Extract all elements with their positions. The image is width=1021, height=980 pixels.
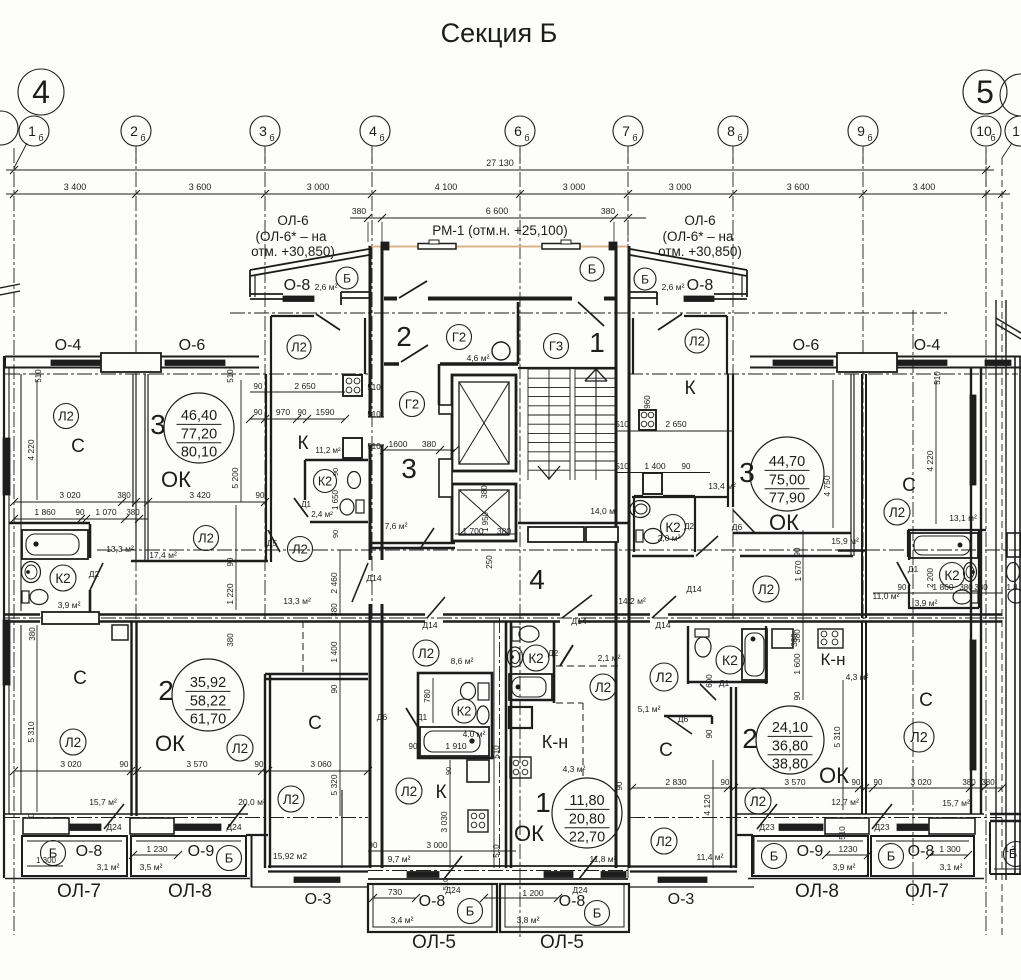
svg-text:ОЛ-8: ОЛ-8 [795,881,839,902]
dim 510 vertical x494 [493,621,495,868]
К2 box right of stairs [633,496,635,552]
bathroom box left apartment [418,673,492,758]
wall С/3 left wing [132,374,134,507]
washbasin left wing [22,562,41,583]
axis circle 2б [121,116,151,146]
svg-text:Л2: Л2 [65,735,81,750]
О-3 facade step right [737,834,753,836]
svg-text:510: 510 [492,745,501,759]
room 2 rw area circle [756,706,824,774]
stair down arrow [538,466,549,479]
right neighbour wall line [995,300,997,880]
svg-text:К2: К2 [55,571,70,586]
horizontal axis wing bottom right [630,817,1002,819]
svg-text:5 200: 5 200 [230,467,240,489]
circle Л2 hall right [288,537,313,562]
svg-text:б: б [524,133,529,143]
svg-text:22,70: 22,70 [569,830,605,846]
svg-text:б: б [737,133,742,143]
svg-text:Д14: Д14 [366,573,381,583]
window О-4 right [897,360,947,366]
svg-text:Д14: Д14 [686,584,701,594]
corridor wall piece right [838,549,866,552]
svg-text:3 000: 3 000 [669,182,692,192]
left bay door leaf [316,314,340,330]
room3 right bottom wall [733,532,851,534]
svg-text:С: С [71,436,85,457]
dim 1230 rw [826,854,868,856]
right wing top wall [750,356,1021,358]
svg-text:3,1 м²: 3,1 м² [940,862,963,872]
dim 4750 vertical [832,380,834,528]
svg-text:510: 510 [226,369,235,383]
window О-4 left [51,360,101,366]
svg-text:Д23: Д23 [874,822,889,832]
window О-6 right [773,360,833,366]
svg-text:24,10: 24,10 [772,720,808,736]
svg-text:К: К [684,378,695,399]
terrace window bar 2 [542,244,580,250]
bathroom right wing box [907,530,909,557]
circle Л2 rw lower-left room [651,828,677,854]
pier box wb1 [23,818,69,834]
svg-text:Г2: Г2 [452,330,466,345]
svg-text:К-н: К-н [821,650,846,669]
svg-text:4,3 м²: 4,3 м² [563,764,586,774]
svg-text:Г3: Г3 [549,339,563,354]
right wing window bar outer [970,395,976,485]
svg-text:3 060: 3 060 [310,759,332,769]
svg-text:4,6 м²: 4,6 м² [467,353,490,363]
svg-text:Д24: Д24 [106,822,121,832]
svg-text:Б: Б [887,849,896,864]
right wing bottom wall [736,813,984,815]
circle Л2 rw hall [650,663,678,691]
svg-text:2: 2 [158,675,174,706]
door leaf К2 box [294,498,308,517]
K2 box left wing [305,459,368,461]
svg-text:90: 90 [721,778,730,787]
central bottom window 1 [407,872,439,878]
wall top of С right lower [265,673,368,675]
svg-text:13,3 м²: 13,3 м² [106,544,134,554]
balcony О-9 right wing box [752,836,868,876]
svg-text:3 600: 3 600 [189,182,212,192]
circle Л2 left apt room [413,640,439,666]
circle К2 left apt [452,699,476,723]
balcony door leaf rw1 [757,804,777,829]
circle Г2 lower [400,392,425,417]
svg-text:Л2: Л2 [401,784,417,799]
svg-text:6: 6 [514,123,522,139]
corridor door leaf 1 [427,597,445,618]
tub rw vertical [742,629,767,680]
horizontal axis line left wing [5,373,368,375]
door leaf room 2 [401,345,428,362]
central block left wall [369,246,372,417]
axis circle 3б [250,116,280,146]
svg-text:8: 8 [727,123,735,139]
dim 1400/90 vertical x337 [339,621,341,816]
svg-text:250: 250 [485,555,494,569]
washer left apt [467,760,489,782]
svg-text:11,0 м²: 11,0 м² [873,591,900,601]
svg-text:44,70: 44,70 [769,454,805,470]
door leaf left apt [406,708,419,729]
svg-text:3 020: 3 020 [60,759,82,769]
svg-text:9: 9 [857,123,865,139]
balcony О-8 left wing box [22,836,127,876]
stair enclosure top [518,367,616,369]
svg-text:7,6 м²: 7,6 м² [385,521,408,531]
svg-text:ОК: ОК [155,731,185,756]
circle Л2 С right [884,499,910,525]
svg-text:1: 1 [535,787,551,818]
corridor door leaf 3 [652,596,676,618]
svg-text:90: 90 [298,408,307,417]
kitchen left walls [270,377,272,497]
svg-text:9,7 м²: 9,7 м² [388,854,411,864]
svg-text:Л2: Л2 [656,669,673,685]
svg-text:3,8 м²: 3,8 м² [517,915,540,925]
room 1 area circle [552,778,622,848]
dim 2650 kitchen left [250,391,345,393]
svg-text:5 310: 5 310 [832,726,842,748]
dim 3030 vertical [449,760,451,868]
svg-text:1: 1 [1012,123,1020,139]
extra axis line right [912,310,914,905]
svg-text:Л2: Л2 [889,505,905,520]
terrace door leaf right [578,302,604,326]
circle К2 rw [716,646,744,674]
svg-text:О-3: О-3 [668,891,695,908]
svg-text:4 750: 4 750 [822,475,832,497]
circle Л2 room2 [227,735,253,761]
svg-text:РМ-1 (отм.н. +25,100): РМ-1 (отм.н. +25,100) [432,223,567,238]
window С rw [897,824,928,831]
svg-text:1 950: 1 950 [481,511,490,532]
horizontal axis line Б [230,312,947,314]
svg-text:О-8: О-8 [76,843,103,860]
axis circle 8б [718,116,748,146]
dim line 1600/380 [384,449,455,451]
svg-text:ОЛ-8: ОЛ-8 [168,881,212,902]
svg-text:К2: К2 [528,651,543,666]
hallway wall rw [664,715,712,717]
tub left apt [420,727,489,756]
svg-text:ОЛ-7: ОЛ-7 [905,881,949,902]
balcony outer line [5,878,250,880]
svg-text:1 3: 1 3 [1004,845,1016,854]
wall room3 center [438,364,441,405]
sink left apt [477,706,489,724]
svg-text:90: 90 [254,408,263,417]
axis circle 4б [360,116,390,146]
svg-text:3 600: 3 600 [787,182,810,192]
svg-text:О-8: О-8 [908,843,935,860]
svg-text:3: 3 [401,453,417,484]
svg-text:О-6: О-6 [793,337,820,354]
svg-text:1 600: 1 600 [792,653,802,675]
svg-text:35,92: 35,92 [190,675,226,691]
svg-text:510: 510 [615,420,629,429]
svg-text:Д14: Д14 [655,620,670,630]
vent shaft box left [112,625,128,640]
right neighbour wall 2 [1014,356,1016,875]
svg-text:2 830: 2 830 [665,777,687,787]
axis leaders [14,143,27,168]
dim 1300 w1 [27,865,63,867]
stair treads left flight [528,368,570,370]
washer left kitchen [343,438,362,458]
svg-text:90: 90 [256,491,265,500]
stove rw [818,629,843,648]
dim row right wing bottom [632,787,1002,789]
stair flight borders [527,369,529,480]
wall between central apartments [505,621,508,868]
section marker partial left [0,111,18,145]
svg-text:90: 90 [255,760,264,769]
svg-text:4: 4 [369,123,377,139]
elevator pier 2 [439,459,452,497]
window О-3 right [658,877,707,883]
svg-text:Д24: Д24 [572,885,587,895]
sink right wing bath [964,563,977,582]
balcony О-9 left wing box [131,836,246,876]
svg-text:960: 960 [643,395,652,409]
svg-text:380: 380 [422,439,436,449]
svg-text:1 300: 1 300 [939,844,961,854]
svg-text:К2: К2 [457,704,472,719]
svg-text:Л2: Л2 [291,340,307,355]
svg-text:75,00: 75,00 [769,472,805,488]
elevator pier 1 [439,405,452,414]
svg-text:Б: Б [343,271,351,285]
door leaf corridor right [696,536,718,556]
axis circle 6б [505,116,535,146]
svg-text:3 000: 3 000 [426,840,448,850]
svg-text:К: К [435,782,446,803]
balcony door leaf w1 [104,804,124,829]
balcony ОЛ-5 left box [368,884,497,932]
svg-text:1: 1 [589,327,605,358]
circle Л2 room С [54,404,79,429]
secondary dim 380/6600/380 [350,217,646,219]
bathroom right wall left wing [89,524,92,558]
svg-text:1 860: 1 860 [932,582,954,592]
svg-text:4 100: 4 100 [435,182,458,192]
axis 1в line [1001,158,1003,935]
circle Г2 upper [447,325,472,350]
right bay room walls [726,316,728,374]
stair up arrow [595,369,597,435]
svg-text:11,4 м²: 11,4 м² [697,852,724,862]
section marker 4 [18,69,64,115]
dim 1230 w2 [133,854,178,856]
svg-text:510: 510 [838,826,847,840]
pier box wb4 [929,818,975,834]
svg-text:730: 730 [388,887,402,897]
right neighbour fixtures [1008,589,1021,603]
svg-text:46,40: 46,40 [181,408,217,424]
axis dimension line [6,193,1010,195]
svg-text:780: 780 [423,689,432,703]
balcony door leaf 1 [444,856,462,879]
stove right apt [510,757,531,778]
wall under room 2 [384,362,399,366]
svg-text:2 650: 2 650 [294,381,316,391]
svg-text:6 600: 6 600 [486,206,509,216]
circle К2 kitchen box [314,470,337,493]
dim row left y501 [14,501,265,503]
svg-text:5 320: 5 320 [329,774,339,796]
lobby niche 2 [586,527,618,542]
corridor top wall right wing [632,555,694,557]
svg-text:90: 90 [330,684,339,693]
horizontal axis line right wing [628,373,1018,375]
svg-text:90: 90 [331,530,340,538]
left bay wall segment [341,291,369,293]
corridor bottom wall main [99,613,425,615]
wall С apt rw left lower [861,621,863,814]
svg-text:Л2: Л2 [232,741,248,756]
svg-text:38,80: 38,80 [772,757,808,773]
dim row 1860/380 right [873,592,1002,594]
svg-text:Б: Б [770,849,779,864]
svg-text:1 400: 1 400 [329,641,339,663]
svg-text:13,3 м²: 13,3 м² [283,596,311,606]
svg-text:ОЛ-7: ОЛ-7 [57,881,101,902]
svg-text:20,0 м²: 20,0 м² [238,797,266,807]
door leaf Д2 right apt [560,645,573,666]
svg-text:2: 2 [130,123,138,139]
balcony outer line right [748,878,984,880]
svg-text:Б: Б [593,906,602,921]
О-3 facade step left [246,834,268,836]
svg-text:77,90: 77,90 [769,491,805,507]
dim 5310 rw vertical [842,680,844,810]
overall dimension line 27130 [6,169,994,171]
svg-text:Л2: Л2 [418,646,434,661]
wall 3/kitchen left wing [265,374,267,562]
toilet rw [695,629,709,637]
axis dash line central apartments [499,618,501,868]
wall kitchen/3 right wing [727,374,729,507]
svg-text:1 670: 1 670 [793,560,803,582]
svg-text:ОК: ОК [819,763,849,788]
svg-text:510: 510 [367,442,381,451]
svg-text:90: 90 [852,778,861,787]
svg-text:3 570: 3 570 [186,759,208,769]
svg-text:ОЛ-5: ОЛ-5 [540,932,584,953]
svg-text:90: 90 [874,778,883,787]
elevator shaft 1 [452,375,516,471]
svg-text:б: б [140,133,145,143]
svg-text:11,2 м²: 11,2 м² [315,446,341,455]
circle К2 bathroom left [50,565,76,591]
corridor pier box [42,612,99,624]
axis circle 9б [848,116,878,146]
corridor dim x800 [802,530,804,700]
dim 5200 vertical [240,380,242,502]
corridor bottom wall band [5,613,40,615]
right bay bottom wall [714,293,747,295]
circle Б balcony rw1 [762,844,787,869]
circle Б right bay [634,268,656,290]
svg-text:Д1: Д1 [417,712,428,722]
horizontal axis wing bottom left [5,817,368,819]
svg-text:3 420: 3 420 [189,490,211,500]
dim 5310 vertical left [36,625,38,812]
svg-text:б: б [990,133,995,143]
svg-text:1 230: 1 230 [146,844,168,854]
svg-text:Д2: Д2 [684,522,694,531]
washbasin vestibule [630,501,650,518]
lobby wall [370,542,455,544]
dim row left y518 [14,518,148,520]
dim 780 vertical [432,678,434,723]
svg-text:15,7 м²: 15,7 м² [89,797,117,807]
svg-text:С: С [659,740,673,761]
svg-text:3,5 м²: 3,5 м² [140,862,163,872]
bathroom box right wing lower [687,626,689,684]
svg-text:(ОЛ-6* – на: (ОЛ-6* – на [663,229,734,244]
door leaf room3 right [733,510,755,533]
dim 1300 rw [930,854,968,856]
svg-text:Л2: Л2 [283,792,299,807]
right neighbour Б circle [1004,842,1021,867]
svg-text:17,4 м²: 17,4 м² [149,550,177,560]
wall 2/С lower left [264,674,266,868]
svg-text:510: 510 [367,383,381,392]
svg-text:380: 380 [226,633,235,647]
room 2 area circle left [172,659,244,731]
svg-text:3,9 м²: 3,9 м² [915,598,938,608]
circle Л2 left bay room [287,335,311,359]
room lower-left rw bottom wall [630,865,737,867]
axis circle 1в partial [1005,116,1021,146]
svg-text:510: 510 [441,878,450,891]
horizontal axis corridor bottom [5,617,1005,619]
svg-text:2 650: 2 650 [665,419,687,429]
svg-text:4: 4 [529,564,545,595]
circle Б terrace [580,257,604,281]
right bay diagonal wall [630,255,747,276]
door leaf Д2 [90,563,103,590]
svg-text:90: 90 [409,742,418,751]
tub left wing [22,530,88,559]
lobby niche 1 [528,527,584,542]
washer vestibule [643,473,662,494]
dim row kitchen left [250,418,345,420]
svg-text:К2: К2 [722,652,738,668]
svg-text:С: С [73,668,87,689]
pier box left wing [101,353,161,372]
svg-text:Секция Б: Секция Б [441,18,558,48]
central bottom window 3 [601,872,626,878]
circle Б balcony right [585,901,610,926]
terrace facade line (wood) [368,246,628,248]
svg-text:11,80: 11,80 [569,793,604,809]
left bay room walls [270,316,272,374]
svg-text:380: 380 [480,485,489,499]
svg-text:К2: К2 [944,568,959,583]
washer rw [772,629,793,648]
axis circle 10б [971,116,1001,146]
svg-text:90: 90 [254,382,263,391]
svg-text:11,8 м²: 11,8 м² [590,854,617,864]
svg-text:1: 1 [28,123,36,139]
